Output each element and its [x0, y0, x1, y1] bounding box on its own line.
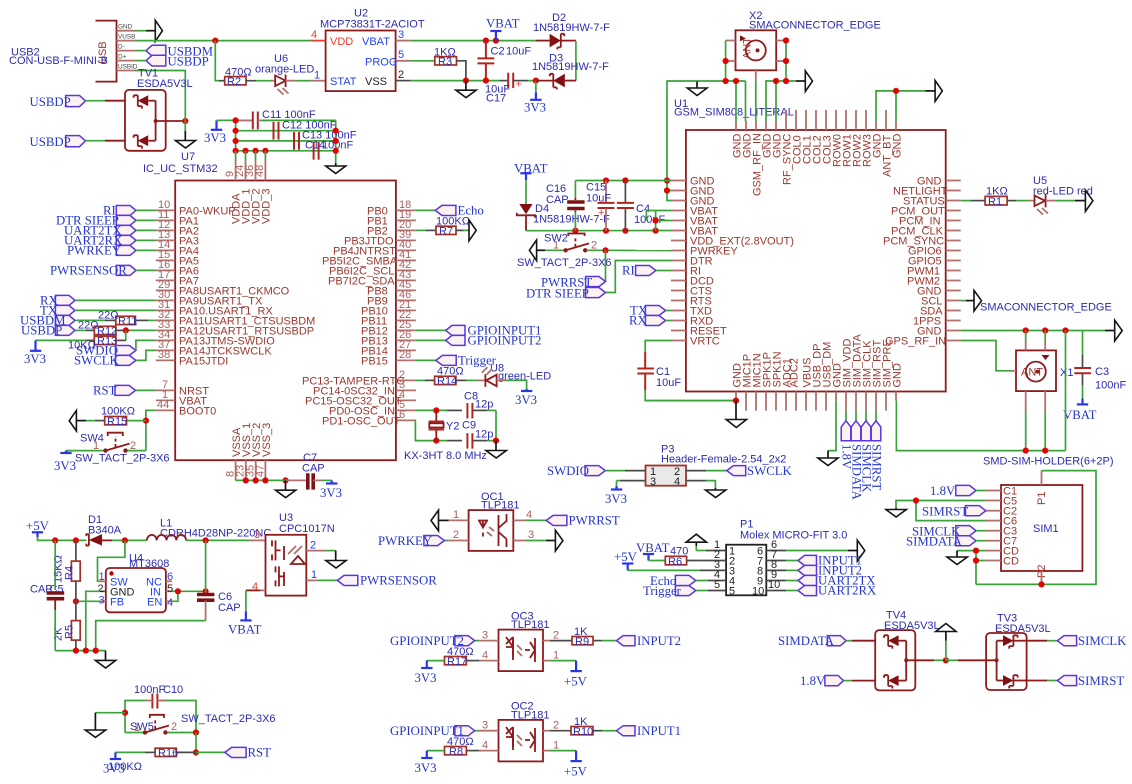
- flag RST: [93, 384, 136, 398]
- pin 22 PB11: [361, 309, 416, 327]
- flag USBDM at connector: [146, 44, 213, 58]
- supply +5V: [26, 519, 50, 537]
- wire 1.8V to TV4: [844, 680, 876, 682]
- pin 7 NRST: [156, 379, 209, 397]
- svg-text:22Ω: 22Ω: [78, 320, 98, 332]
- wire pin1 to +5V: [550, 661, 576, 671]
- pin GND L3: [671, 195, 715, 207]
- wire C9 to rail: [487, 440, 496, 442]
- junctions IN/EN: [175, 588, 209, 594]
- top pin 48 VDD_3: [254, 161, 273, 225]
- pin ROW3: [862, 110, 874, 167]
- pin 5 IN: [166, 583, 173, 595]
- X2 ground bus left segment: [697, 81, 746, 121]
- LED U6 orange-LED: [255, 53, 314, 95]
- svg-text:STAT: STAT: [330, 76, 357, 88]
- switch SW2 SW_TACT_2P-3X6: [517, 233, 612, 270]
- ground under R3: [456, 81, 476, 98]
- pin PWM2: [907, 275, 961, 287]
- wire GND B3 to right bus: [895, 400, 897, 402]
- connector SIM1 SMD-SIM-HOLDER(6+2P): [983, 456, 1114, 579]
- svg-text:1.8V: 1.8V: [800, 674, 826, 688]
- wire +5V to pin 3: [628, 559, 726, 571]
- flag RX: [40, 294, 75, 308]
- svg-text:2: 2: [98, 583, 104, 595]
- svg-text:44: 44: [157, 399, 169, 411]
- wire bottom GND bus: [645, 400, 736, 402]
- junction D1/L1/SW node: [122, 537, 128, 543]
- svg-text:12p: 12p: [475, 399, 493, 411]
- bottom pin 35 VSS_2: [245, 423, 264, 481]
- svg-text:PWRSENSOR: PWRSENSOR: [360, 574, 437, 588]
- svg-text:2: 2: [310, 540, 316, 552]
- pin 1 OC2: [543, 740, 559, 752]
- svg-text:IC_UC_STM32: IC_UC_STM32: [143, 163, 218, 175]
- wire U3 pin4 to VBAT: [246, 581, 266, 612]
- svg-text:U7: U7: [181, 151, 195, 163]
- pin 45 PB8: [367, 279, 416, 297]
- svg-text:R4: R4: [64, 566, 76, 580]
- svg-text:2: 2: [453, 529, 459, 541]
- wire TX flag: [666, 310, 671, 312]
- svg-text:VSS_3: VSS_3: [261, 423, 273, 457]
- wire USBDP lower to TV1: [86, 140, 126, 142]
- svg-text:+5V: +5V: [26, 519, 50, 533]
- flag SIMDATA (SIM C7): [906, 534, 976, 548]
- svg-text:+: +: [598, 207, 604, 219]
- wire FB to R4/R5 node: [76, 600, 100, 602]
- wire R16 to rail: [176, 751, 196, 753]
- wire pin4 to PWRRST flag: [526, 519, 546, 521]
- pin 34 PA13JTMS-SWDIO: [156, 329, 275, 347]
- pin 5 PD0-OSC_IN: [329, 399, 416, 417]
- junction BOOT0/R15: [143, 418, 149, 424]
- IC U4 MT3608: [106, 553, 170, 613]
- junctions left rail: [233, 117, 239, 154]
- pin MIC1N: [752, 353, 764, 410]
- wire STATUS to R1: [961, 200, 985, 202]
- pin 15 PA5: [156, 249, 199, 267]
- supply VBAT (P1): [636, 541, 670, 561]
- svg-text:3V3: 3V3: [415, 761, 437, 775]
- svg-text:6: 6: [167, 571, 173, 583]
- X2 ground bus right segment: [766, 81, 796, 121]
- wire to right ground arrow: [796, 80, 805, 82]
- pin USB_DM: [822, 342, 834, 411]
- wire GPIOINPUT2 to pin3: [475, 640, 479, 642]
- junctions left GND column: [664, 177, 670, 193]
- svg-text:SIMRST: SIMRST: [1078, 674, 1124, 688]
- svg-text:GPIOINPUT2: GPIOINPUT2: [468, 334, 542, 348]
- ground U7: [176, 141, 196, 164]
- junctions X2 bus left: [723, 78, 740, 84]
- pin SIM_PRE: [882, 339, 894, 410]
- pin GSM_RF_IN: [752, 121, 764, 196]
- svg-text:3V3: 3V3: [515, 393, 537, 407]
- pin ROW2: [852, 110, 864, 167]
- pin 10 PA0-WKUP: [156, 199, 236, 217]
- wire D- to flag: [135, 50, 146, 52]
- wire 1.8V to C1: [976, 490, 985, 492]
- svg-text:D-: D-: [118, 44, 125, 51]
- wire L1 to U3 pin3: [186, 529, 265, 541]
- svg-text:SMACONNECTOR_EDGE: SMACONNECTOR_EDGE: [980, 302, 1112, 314]
- left rail of cap bank: [235, 120, 237, 150]
- svg-text:1KΩ: 1KΩ: [434, 47, 456, 59]
- pin 44 BOOT0: [156, 399, 216, 417]
- svg-text:47: 47: [255, 465, 267, 477]
- IC U1 GSM_SIM808_LITERAL: [674, 98, 946, 392]
- X1 bottom stubs: [1026, 391, 1046, 451]
- pin 1 VBAT: [156, 389, 207, 407]
- svg-text:ADC2: ADC2: [789, 358, 801, 387]
- flag SWDIO (P3): [547, 464, 605, 478]
- ground arrow left of OC1: [431, 510, 439, 531]
- ground arrow SCL: [974, 290, 982, 311]
- ground arrow left of SW2: [529, 240, 536, 261]
- svg-text:VBAT: VBAT: [228, 623, 262, 637]
- capacitor C15 10uF: [586, 181, 615, 231]
- flag SIMDATA (SIM_DATA): [849, 411, 863, 501]
- pin SDA: [920, 305, 961, 317]
- wire UART2TX: [136, 229, 156, 231]
- svg-text:SWCLK: SWCLK: [747, 464, 793, 478]
- pin RXD: [671, 315, 713, 327]
- right rail crystal: [495, 410, 497, 440]
- pin ADC1: [782, 358, 794, 410]
- pin GND (top4): [772, 121, 784, 158]
- pin 14 PA4: [156, 239, 199, 257]
- svg-text:100nF: 100nF: [1095, 380, 1126, 392]
- wire USBDP to R12: [75, 329, 94, 331]
- wire GND pin2 to ground rail: [86, 591, 100, 650]
- wire gnd tap: [85, 713, 125, 738]
- pin COL3: [822, 110, 834, 164]
- svg-text:R6: R6: [668, 556, 682, 568]
- pin VBAT L2: [671, 215, 718, 227]
- wire SIMCLK to C3: [976, 530, 985, 532]
- LED U8 green-LED: [477, 363, 551, 387]
- ground arrow up (P1): [686, 534, 706, 542]
- flag GPIOINPUT2 (OC3): [390, 634, 475, 648]
- svg-text:470Ω: 470Ω: [447, 646, 474, 658]
- svg-text:R1: R1: [988, 196, 1002, 208]
- SIM P1 stub: [1041, 471, 1043, 485]
- flag TX: [40, 304, 75, 318]
- wire L1 junction down to C6: [205, 540, 207, 591]
- wire VUSB net: [135, 40, 311, 42]
- svg-text:100KΩ: 100KΩ: [436, 216, 470, 228]
- svg-text:C9: C9: [462, 420, 476, 432]
- wire SIMDATA to C7: [976, 540, 985, 542]
- junction VBAT stem: [493, 38, 499, 44]
- svg-text:PROG: PROG: [365, 56, 397, 68]
- ground under VSS bus: [276, 480, 296, 497]
- pin GND of USB2: [117, 24, 136, 31]
- wire left GND column from X2 bus to U1: [667, 81, 697, 201]
- pin 2 OC3: [543, 630, 572, 642]
- wire R8 to pin4: [466, 750, 479, 752]
- flag SIMRST (SIM C2): [922, 504, 986, 518]
- pin 40 PB4JNTRST: [333, 239, 416, 257]
- svg-text:10uF: 10uF: [506, 46, 531, 58]
- pin 4 VDD: [311, 29, 326, 41]
- inductor L1 CDRH4D28NP-220NC: [147, 518, 271, 541]
- flag PWRKEY (OC1): [378, 534, 444, 548]
- diode D3 1N5819HW-7-F: [532, 53, 609, 90]
- svg-text:DTR SIEEP: DTR SIEEP: [526, 287, 589, 301]
- wire D1 to L1: [112, 539, 147, 541]
- pin 12 PA2: [156, 219, 199, 237]
- svg-text:GPS_RF_IN: GPS_RF_IN: [885, 335, 946, 347]
- svg-text:2: 2: [171, 721, 177, 733]
- svg-text:PWRKEY: PWRKEY: [67, 244, 121, 258]
- svg-text:USBDP: USBDP: [168, 54, 209, 68]
- wire junction down to PWRRST flag: [605, 250, 607, 281]
- capacitor C9 12p: [447, 420, 493, 449]
- ground symbol power rail: [95, 651, 115, 668]
- ground arrow right (P1 pin6): [857, 540, 865, 561]
- SIM pin stubs left: [985, 491, 1001, 561]
- wire D+ to flag: [135, 60, 146, 62]
- wire PWRKEY: [136, 249, 156, 251]
- resistor R15 100Kohm: [101, 406, 135, 428]
- diode D2 1N5819HW-7-F: [533, 12, 610, 49]
- diode D4 1N5819HW-7-F: [517, 203, 610, 231]
- wire R13 to 3V3: [36, 339, 95, 341]
- wire C7 to 3V3: [313, 479, 332, 481]
- wire to gnd arrow: [925, 90, 935, 92]
- junctions VSS bus: [243, 477, 289, 483]
- pin COL0: [792, 110, 804, 164]
- svg-text:C3: C3: [1095, 366, 1109, 378]
- pin SCL: [921, 295, 961, 307]
- svg-text:22Ω: 22Ω: [98, 310, 118, 322]
- svg-text:12p: 12p: [475, 429, 493, 441]
- svg-text:10: 10: [752, 586, 764, 598]
- pin 21 PB10: [361, 299, 416, 317]
- svg-text:1: 1: [314, 70, 320, 82]
- pin 3 VBAT: [396, 29, 411, 41]
- pin 37 PA14JTCKSWCLK: [156, 339, 273, 357]
- svg-text:PWRKEY: PWRKEY: [378, 534, 432, 548]
- flag USBDM: [20, 314, 75, 328]
- wire PROG to R3: [411, 60, 435, 62]
- resistor R8 470ohm: [445, 736, 474, 758]
- svg-text:2: 2: [553, 630, 559, 642]
- svg-text:SW4: SW4: [80, 433, 104, 445]
- flag DTR SIEEP: [56, 214, 136, 228]
- X2 centre RF line: [755, 81, 757, 121]
- junctions VBAT bus: [572, 228, 658, 234]
- svg-text:orange-LED: orange-LED: [255, 64, 314, 76]
- pin 31 PA10.USART1_RX: [156, 299, 274, 317]
- pin 28 PB15: [361, 349, 416, 367]
- diode TV3-a: [997, 635, 1027, 648]
- capacitor C7 CAP: [302, 452, 325, 490]
- svg-text:D+: D+: [118, 54, 127, 61]
- svg-text:EN: EN: [147, 596, 162, 608]
- switch SW4 SW_TACT_2P-3X6: [75, 433, 170, 465]
- svg-text:1.8V: 1.8V: [930, 484, 956, 498]
- pin ANT_BT: [882, 110, 894, 177]
- pin GPIO6: [908, 245, 961, 257]
- pin 32 PA11USART1_CTSUSBDM: [156, 309, 316, 327]
- wire USBDP upper to TV1: [86, 100, 126, 102]
- pin 33 PA12USART1_RTSUSBDP: [156, 319, 314, 337]
- ground arrow up (TV): [936, 624, 956, 661]
- svg-text:C10: C10: [163, 684, 183, 696]
- flag PWRSENSOR (U3): [337, 574, 437, 588]
- connector USB2 CON-USB-F-MINI-B: [9, 21, 117, 82]
- flag INPUT2 (P1): [798, 564, 862, 578]
- optocoupler OC2 TLP181: [499, 701, 550, 762]
- wire PWRKEY flag to pin2: [444, 540, 448, 542]
- wire TX: [75, 309, 156, 311]
- flag Trigger: [436, 354, 497, 368]
- flag 1.8V (SIM_VDD): [839, 411, 853, 470]
- svg-text:PWRSENSOR: PWRSENSOR: [50, 264, 127, 278]
- flag UART2TX (P1): [798, 574, 876, 588]
- wire USBDM to R11: [75, 319, 116, 321]
- wire R9 to INPUT2: [593, 640, 617, 642]
- flag USBDP at connector: [146, 54, 209, 68]
- junctions GND top bus: [603, 177, 629, 183]
- optocoupler OC3 TLP181: [499, 611, 550, 672]
- ANT_BT area ground bus: [876, 91, 925, 121]
- pin 13 PA3: [156, 229, 199, 247]
- wire VSS net: [411, 80, 500, 82]
- wire to C7: [280, 479, 306, 481]
- capacitor C5 CAP: [30, 540, 64, 650]
- svg-text:SWDIO: SWDIO: [547, 464, 589, 478]
- flag Echo: [435, 204, 483, 218]
- flag SIMRST (TV3): [1057, 674, 1124, 688]
- svg-text:GND: GND: [892, 134, 904, 159]
- svg-text:SIMCLK: SIMCLK: [1078, 634, 1127, 648]
- svg-text:1: 1: [453, 509, 459, 521]
- wire RI: [136, 209, 156, 211]
- svg-text:+5V: +5V: [614, 550, 638, 564]
- TV3 internal bus: [995, 641, 999, 681]
- supply 3V3 P3: [605, 486, 627, 506]
- ground arrow right of X2: [805, 71, 812, 92]
- svg-text:3V3: 3V3: [24, 352, 46, 366]
- flag SIMDATA (TV4): [778, 634, 846, 648]
- diode TV3-b: [997, 675, 1027, 688]
- wire VBAT net top: [411, 40, 536, 42]
- ground arrow right of U5: [1085, 190, 1093, 211]
- flag SIMRST (SIM_RST): [869, 411, 883, 491]
- pin GND R3: [917, 325, 961, 337]
- svg-text:1: 1: [311, 569, 317, 581]
- wire VRTC to C1: [645, 341, 671, 353]
- svg-text:SW_TACT_2P-3X6: SW_TACT_2P-3X6: [181, 713, 276, 725]
- svg-text:B340A: B340A: [88, 525, 122, 537]
- svg-text:3V3: 3V3: [320, 486, 342, 500]
- svg-text:Y2: Y2: [446, 420, 459, 432]
- diode array TV3 ESDA5V3L: [986, 613, 1051, 691]
- pin D+ of USB2: [117, 54, 136, 61]
- pin RTS: [671, 295, 712, 307]
- wire SW2 pin2 to PWRKEY pin: [587, 249, 671, 251]
- supply 3V3 for R13: [24, 340, 46, 366]
- wire junction to TV3: [946, 659, 997, 661]
- pin GND (top2): [742, 121, 754, 158]
- svg-text:SMD-SIM-HOLDER(6+2P): SMD-SIM-HOLDER(6+2P): [983, 456, 1114, 468]
- pin 8 P1: [766, 559, 798, 571]
- svg-text:3: 3: [398, 29, 404, 41]
- svg-text:5: 5: [729, 586, 735, 598]
- svg-text:SIMDATA: SIMDATA: [778, 634, 835, 648]
- svg-text:SIMDATA: SIMDATA: [906, 534, 963, 548]
- wire R12 to pin 33: [116, 329, 156, 331]
- pin VBUS: [802, 358, 814, 411]
- flag PWRKEY: [67, 244, 136, 258]
- pin PCM_CLK: [891, 225, 961, 237]
- pin ROW0: [832, 110, 844, 167]
- wire P3 pin3 to 3V3: [617, 481, 646, 486]
- flag PWRRST: [541, 276, 606, 290]
- bottom pin 47 VSS_3: [255, 423, 274, 481]
- ground under X2 bus: [687, 81, 707, 96]
- wire pin1 to +5V (OC2): [550, 751, 576, 761]
- capacitor C12 100nF: [274, 120, 337, 140]
- wire SW2 pin1 to ground arrow: [537, 249, 564, 251]
- wire R6 to pin 2: [687, 549, 727, 561]
- pin VBAT L1: [671, 205, 718, 217]
- svg-text:R5: R5: [64, 625, 76, 639]
- flag SWCLK (P3): [727, 464, 793, 478]
- junction R16 row: [193, 749, 199, 755]
- wire R14 to U8: [456, 379, 477, 381]
- wire row1 to right rail: [262, 119, 336, 121]
- ground (SIM C5): [886, 508, 906, 517]
- wire Echo to pin 4: [696, 569, 726, 581]
- ground under cap bank: [326, 163, 346, 174]
- junctions top pin taps on row4: [242, 148, 268, 154]
- svg-text:1: 1: [99, 571, 105, 583]
- pin DTR: [671, 255, 713, 267]
- wire into R2: [219, 80, 225, 82]
- flag SIMCLK (SIM_CLK): [859, 411, 873, 494]
- capacitor C3 100nF: [1074, 331, 1126, 399]
- svg-text:CAP: CAP: [546, 194, 569, 206]
- wire D2 to D3 right side: [575, 41, 577, 81]
- svg-text:VBAT: VBAT: [362, 36, 390, 48]
- wire U3 pin2 to ground: [306, 540, 346, 569]
- junctions ground rail: [73, 648, 99, 654]
- svg-text:ANT: ANT: [1021, 367, 1043, 379]
- pin GND (top5): [872, 121, 884, 158]
- resistor R7 100Kohm: [436, 216, 470, 238]
- supply VBAT under C3: [1063, 399, 1097, 423]
- pin 3 OC3: [479, 630, 499, 642]
- pin USBID of USB2: [117, 63, 138, 70]
- pin 5 PROG: [396, 49, 411, 61]
- svg-text:100nF: 100nF: [134, 684, 165, 696]
- pin 43 PB7I2C_SDA: [328, 269, 416, 287]
- wire SCL to ground arrow: [961, 300, 974, 302]
- pin 1 P1: [706, 539, 726, 551]
- resistor R13 10Kohm: [68, 336, 117, 352]
- svg-text:SIM1: SIM1: [1033, 523, 1059, 535]
- svg-text:1N5819HW-7-F: 1N5819HW-7-F: [532, 61, 609, 73]
- wire pin1 to ground arrow: [439, 519, 449, 521]
- pin stubs X2 sides: [726, 41, 786, 81]
- flag UART2RX (P1): [798, 584, 877, 598]
- supply +5V OC3: [564, 671, 588, 688]
